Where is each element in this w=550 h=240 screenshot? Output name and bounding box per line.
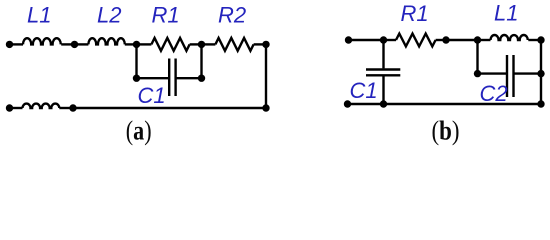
capacitor C1 (b) [366,70,400,76]
node (a) bottom-right corner [262,104,269,111]
inductor L1 (b) [491,35,528,40]
svg-text:(a): (a) [126,115,152,146]
wire (b) C2 branch right horizontal [514,72,542,74]
svg-text:(b): (b) [432,115,460,146]
svg-text:C1: C1 [138,83,166,108]
wire (a) node to L2 [75,43,89,45]
capacitor C1 [169,59,175,97]
svg-text:L1: L1 [27,3,51,28]
node (a) C1 branch right [198,75,205,82]
node (b) C2 branch left [474,70,481,77]
svg-text:R1: R1 [152,3,180,28]
inductor L2 [88,38,124,44]
wire (a) R2 to right node [254,43,266,45]
resistor R2 [215,38,253,51]
wire (a) C1 branch right vertical [200,44,202,78]
wire (b) C2 branch left vertical [476,40,478,74]
wire (a) C1 branch right horizontal [176,77,202,79]
node (a) bottom-left terminal [6,104,13,111]
node (a) C1 branch left [133,75,140,82]
wire (a) R1 to node [190,43,202,45]
wire (b) node to R1 [384,39,397,41]
svg-text:C1: C1 [350,78,378,103]
svg-text:L1: L1 [494,1,518,26]
node (a) bottom coil junction [69,104,76,111]
wire (b) node to node [446,39,478,41]
wire (b) top rail left lead [349,39,384,41]
node (b) bottom-right corner [537,100,544,107]
svg-text:R2: R2 [218,3,246,28]
wire (b) R1 to node [436,39,446,41]
wire (b) right vertical [540,40,542,104]
resistor R1 (b) [396,34,436,47]
node (b) L1 left junction [474,36,481,43]
resistor R1 [151,38,189,51]
wire (a) L1 to node [61,43,74,45]
inductor L1 [23,38,61,44]
node (a) L2-R1 junction [133,41,140,48]
svg-text:C2: C2 [480,81,508,106]
wire (a) bottom coil to node [59,107,73,109]
wire (a) right vertical [265,44,267,108]
svg-text:R1: R1 [401,1,429,26]
wire (a) top rail left lead [10,43,24,45]
node (a) R1-R2 junction [198,41,205,48]
wire (a) C1 branch left vertical [135,44,137,78]
wire (a) bottom rail left lead [10,107,23,109]
node (a) top-right corner [262,41,269,48]
capacitor C2 [507,55,514,97]
node (b) R1-L1 junction [442,36,449,43]
node (a) top-left terminal [6,41,13,48]
node (b) top-right corner [537,36,544,43]
svg-text:L2: L2 [97,3,121,28]
node (b) bottom-left terminal [344,100,351,107]
wire (a) bottom rail [73,107,266,109]
wire (b) bottom rail [348,103,542,105]
wire (a) C1 branch left horizontal [137,77,170,79]
node (a) L1-L2 junction [71,41,78,48]
node (b) top-left terminal [345,36,352,43]
wire (b) node to L1 [478,39,491,41]
wire (a) node to R2 [202,43,216,45]
wire (a) L2 to node [125,43,137,45]
node (b) C1 bottom junction [380,100,387,107]
wire (b) C1 bottom lead [382,76,384,104]
inductor unlabeled bottom [23,104,60,108]
node (b) C2 branch right [537,70,544,77]
wire (a) node to R1 [137,43,152,45]
wire (b) L1 to right node [528,39,541,41]
wire (b) C1 top lead [382,40,384,68]
node (b) C1 top junction [380,36,387,43]
wire (b) C2 branch left horizontal [478,72,508,74]
